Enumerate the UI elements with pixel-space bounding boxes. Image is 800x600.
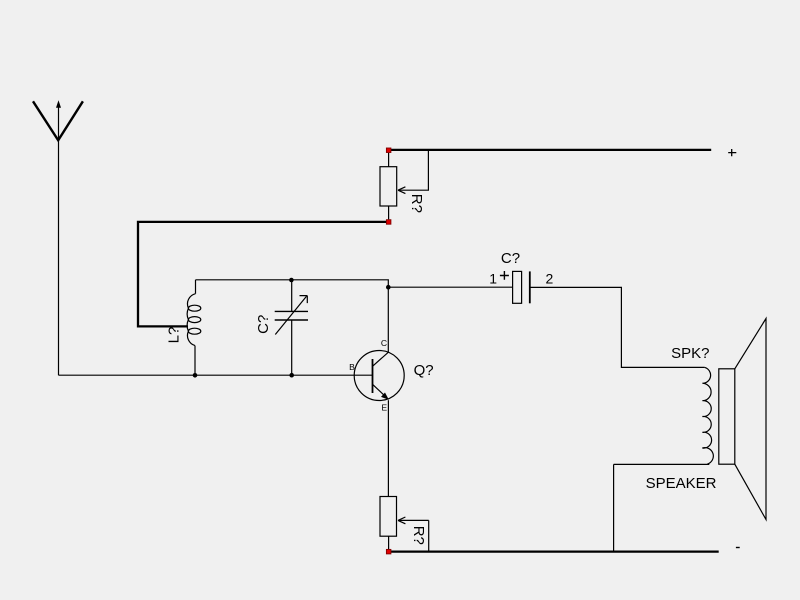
svg-text:Q?: Q? bbox=[414, 362, 434, 379]
svg-text:B: B bbox=[349, 362, 355, 372]
svg-text:C: C bbox=[381, 338, 387, 348]
svg-text:L?: L? bbox=[166, 327, 183, 344]
svg-text:2: 2 bbox=[546, 270, 554, 286]
svg-text:SPEAKER: SPEAKER bbox=[646, 475, 717, 492]
svg-text:C?: C? bbox=[255, 315, 272, 334]
svg-text:E: E bbox=[381, 402, 387, 412]
svg-text:R?: R? bbox=[408, 194, 425, 213]
svg-text:1: 1 bbox=[489, 271, 497, 287]
svg-text:SPK?: SPK? bbox=[671, 345, 709, 362]
svg-text:C?: C? bbox=[501, 250, 520, 267]
svg-text:R?: R? bbox=[410, 526, 427, 545]
